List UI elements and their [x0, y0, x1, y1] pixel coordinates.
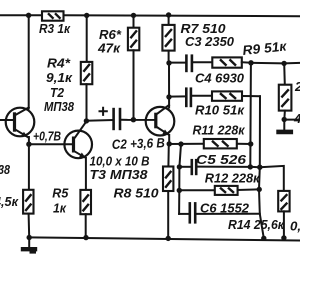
svg-text:R5: R5 — [52, 186, 69, 201]
resistor R10 — [212, 91, 242, 100]
node junction on rail above R7 — [166, 12, 171, 17]
node R12 branch left — [177, 188, 182, 193]
svg-text:С5 526: С5 526 — [196, 152, 247, 167]
node junction on rail above R4 — [84, 13, 89, 18]
wire T3 collector line — [168, 63, 170, 108]
wire R8 bottom lead — [167, 191, 169, 238]
svg-text:С3 2350: С3 2350 — [185, 34, 235, 49]
wire C3 to R9 — [193, 61, 212, 63]
transistor T3 — [146, 105, 175, 136]
wire R13 top lead — [283, 64, 286, 85]
svg-text:4: 4 — [293, 111, 300, 126]
label R5 1к — [52, 186, 69, 216]
node R13 ground — [282, 117, 287, 122]
resistor R13 — [279, 85, 292, 111]
wire C3 row left — [169, 62, 185, 64]
svg-text:2: 2 — [294, 79, 300, 94]
capacitor C5 — [192, 159, 196, 175]
svg-text:R12 228к: R12 228к — [205, 171, 261, 186]
svg-text:9,1к: 9,1к — [46, 70, 73, 85]
svg-text:Т3 МП38: Т3 МП38 — [90, 167, 149, 182]
svg-text:1к: 1к — [53, 201, 67, 216]
wire C6 row left — [179, 213, 189, 215]
resistor R4 — [81, 62, 93, 84]
node C5 row on V2 — [257, 165, 262, 170]
wire C2 row — [86, 119, 112, 122]
capacitor C4 — [186, 87, 191, 107]
node C4 branch — [166, 94, 171, 99]
svg-text:38: 38 — [0, 162, 10, 177]
svg-text:С2 +3,6 В: С2 +3,6 В — [112, 135, 166, 152]
resistor R3 — [42, 11, 64, 20]
wire bottom rail — [29, 237, 300, 240]
wire +3,6 row right — [237, 143, 251, 145]
wire R12 row left — [179, 189, 215, 191]
svg-text:R8 510: R8 510 — [114, 186, 160, 201]
resistor R9 — [212, 57, 242, 67]
wire T1 collector to rail — [28, 15, 30, 108]
node bottom R5 — [83, 235, 88, 240]
capacitor C2 — [114, 108, 120, 130]
resistor R8 — [163, 167, 173, 192]
wire C5 row left — [179, 166, 190, 168]
wire C5 row right to R14 corner — [197, 166, 283, 191]
capacitor C3 — [186, 54, 192, 72]
wire C4 to R10 — [192, 95, 212, 97]
wire top supply rail left segment — [0, 14, 42, 16]
svg-text:0,: 0, — [290, 219, 300, 234]
wire C6 row right — [196, 213, 259, 215]
label R4* 9,1к Т2 МП38 — [44, 56, 75, 115]
node V1 top — [248, 60, 253, 65]
svg-text:+0,7В: +0,7В — [33, 129, 61, 144]
resistor R11 — [204, 139, 237, 148]
node junction on rail above T1 — [26, 13, 31, 18]
wire R6 bottom lead — [133, 50, 135, 120]
svg-text:R10 51к: R10 51к — [195, 103, 245, 118]
wire R5 bottom lead — [85, 214, 87, 238]
resistor 4,5к — [23, 190, 33, 214]
capacitor C2 polarity plus — [100, 108, 107, 115]
svg-text:R14 25,6к: R14 25,6к — [228, 217, 285, 232]
ground symbol left — [21, 238, 37, 254]
node C5 row on V1 — [248, 164, 253, 169]
resistor R12 — [215, 186, 238, 195]
node bottom R14 — [281, 235, 286, 240]
wire C4 row left — [169, 95, 185, 97]
wire +3,6 row left — [169, 143, 204, 145]
node junction on rail above R6 — [131, 13, 136, 18]
node R13 branch top — [281, 61, 286, 66]
transistor T1 — [0, 108, 34, 138]
wire R4 top lead — [86, 15, 88, 62]
wire R9 row to right edge — [242, 62, 300, 63]
resistor R14 — [278, 191, 289, 212]
wire R13 bottom lead — [283, 111, 286, 120]
wire branch line — [179, 144, 181, 214]
node bottom R8 — [166, 236, 171, 241]
node bottom rail ground — [27, 235, 32, 240]
svg-text:R3 1к: R3 1к — [39, 21, 71, 36]
node C5 row branch left — [177, 164, 182, 169]
resistor R6 — [128, 28, 139, 51]
wire R7 bottom lead — [168, 51, 170, 63]
wire top supply rail right segment — [64, 15, 301, 16]
label R6* 47к — [97, 27, 122, 56]
wire V2 vertical — [259, 96, 264, 238]
wire T3 emitter to +3,6 node — [168, 135, 170, 144]
svg-text:С4 6930: С4 6930 — [195, 71, 245, 86]
wire T2 emitter to R5 — [85, 158, 87, 190]
wire C2 to T3 base — [121, 119, 154, 121]
wire R7 top lead — [168, 15, 170, 25]
wire R14 bottom lead — [283, 211, 285, 238]
node R12 on V2 — [257, 187, 262, 192]
svg-text:4,5к: 4,5к — [0, 194, 19, 209]
node R6 bottom on base wire — [131, 117, 136, 122]
ground symbol right — [276, 120, 293, 132]
wire R10 to V2 corner — [242, 95, 260, 97]
wire T2 base — [29, 143, 72, 145]
node T3 emitter / R8 — [167, 141, 172, 146]
svg-text:Т2: Т2 — [50, 85, 65, 100]
capacitor C6 — [190, 202, 195, 224]
wire R8 top lead — [167, 144, 169, 167]
node C3 branch — [166, 60, 171, 65]
svg-text:МП38: МП38 — [44, 99, 75, 114]
wire R4 bottom lead — [86, 84, 88, 121]
svg-text:R4*: R4* — [47, 56, 71, 71]
wire T1 emitter chain to resistor — [28, 137, 30, 190]
resistor R7 — [162, 25, 174, 51]
svg-text:47к: 47к — [97, 41, 121, 56]
node R11 on V1 — [248, 141, 253, 146]
wire R12 row right — [238, 188, 260, 191]
wire stub to right edge — [284, 119, 300, 121]
transistor T2 — [64, 122, 92, 159]
wire R6 top lead — [133, 15, 135, 27]
resistor R5 — [80, 190, 91, 214]
svg-text:R11 228к: R11 228к — [193, 123, 246, 138]
node branch C5/R12/C6 — [178, 141, 183, 146]
node bottom V2 — [261, 236, 266, 241]
node R4 bottom / T2 collector / C2 — [84, 118, 89, 123]
wire resistor to bottom rail — [28, 214, 31, 238]
wire V1 vertical — [249, 63, 252, 167]
node T1 emitter / T2 base — [26, 142, 31, 147]
